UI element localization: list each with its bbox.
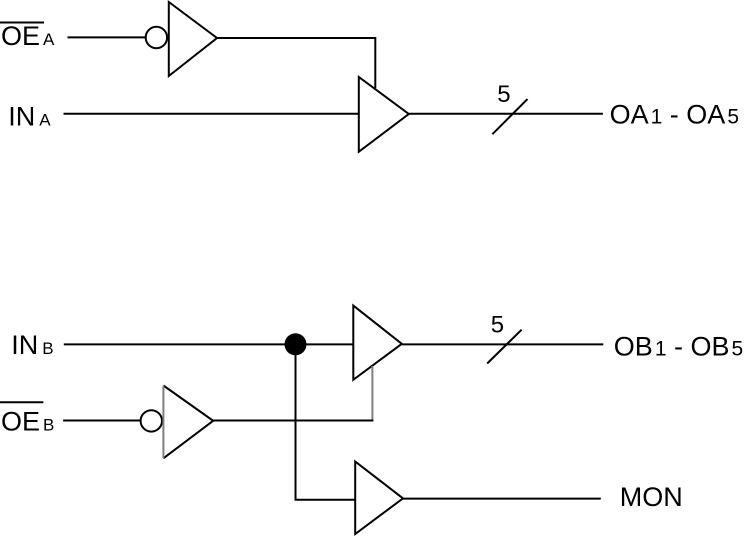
overline for OEB	[0, 401, 43, 403]
bus slash B	[487, 330, 521, 364]
svg-text:5: 5	[497, 81, 510, 108]
wire INB to buffer B	[64, 343, 354, 345]
wire junction to MON buffer (vertical)	[295, 344, 297, 499]
svg-text:OA1 - OA5: OA1 - OA5	[610, 99, 739, 129]
bus slash A	[492, 99, 527, 134]
inverter triangle (channel A enable)	[169, 2, 217, 76]
wire MON output	[403, 498, 601, 500]
svg-text:INB: INB	[11, 330, 53, 360]
svg-text:MON: MON	[620, 482, 683, 512]
junction node on INB wire	[285, 333, 307, 355]
wire OEA to inverter bubble	[68, 36, 146, 38]
overline for OEA	[0, 22, 44, 24]
wire inverter B output horizontal run	[213, 420, 373, 422]
inverter bubble (channel B enable)	[141, 410, 162, 431]
wire inverter A output to buffer A enable	[217, 38, 375, 88]
svg-text:5: 5	[491, 311, 504, 338]
wire buffer B output	[402, 343, 604, 345]
svg-text:OEB: OEB	[1, 407, 54, 437]
svg-text:INA: INA	[8, 102, 51, 132]
buffer triangle channel B	[353, 306, 402, 380]
wire INA to buffer A	[64, 113, 359, 115]
wire junction to MON buffer (horizontal)	[295, 499, 356, 501]
wire OEB to inverter bubble	[63, 420, 141, 422]
buffer triangle MON	[355, 462, 403, 535]
svg-text:OEA: OEA	[1, 21, 55, 51]
inverter triangle (channel B enable) left edge	[162, 386, 164, 459]
inverter bubble (channel A enable)	[146, 27, 167, 48]
wire inverter B output vertical run to buffer B enable	[371, 366, 373, 420]
inverter triangle (channel B enable) slant edges	[163, 386, 213, 459]
svg-text:OB1 - OB5: OB1 - OB5	[614, 331, 743, 361]
buffer triangle channel A	[359, 77, 409, 152]
wire buffer A output	[409, 113, 603, 115]
